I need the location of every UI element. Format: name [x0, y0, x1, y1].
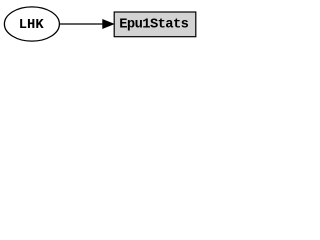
node LHK (ellipse) [4, 7, 59, 41]
arrowhead [103, 20, 114, 29]
svg-text:LHK: LHK [19, 18, 45, 33]
svg-text:Epu1Stats: Epu1Stats [119, 18, 188, 33]
node Epu1Stats (filled box) [114, 12, 196, 37]
wire LHK -> Epu1Stats [60, 23, 103, 25]
